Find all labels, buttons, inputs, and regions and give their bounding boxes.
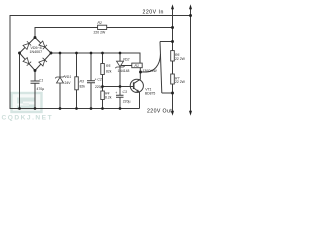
- wire: neutral rail A + left frame + bottom rail: [10, 16, 191, 109]
- svg-text:C3: C3: [123, 90, 127, 94]
- bridge rectifier diamond: [20, 38, 52, 71]
- resistor R6 box: [171, 51, 175, 61]
- svg-text:1N4148: 1N4148: [118, 69, 130, 73]
- transistor VT1 base bar: [133, 82, 135, 89]
- svg-text:BD875: BD875: [145, 91, 155, 95]
- wire: bridge bottom to C1: [34, 71, 36, 82]
- svg-text:220V Out: 220V Out: [147, 108, 172, 114]
- svg-text:R3: R3: [80, 80, 84, 84]
- zener diode VD1 symbol: [55, 76, 65, 83]
- capacitor C2 branch: [87, 53, 95, 109]
- wire: 220V In terminal 1 vertical: [172, 9, 174, 28]
- wire: 220V In/Out pass-through vertical 2: [190, 9, 192, 112]
- svg-text:470µ: 470µ: [37, 87, 45, 91]
- transistor VT1 circle: [130, 79, 143, 92]
- capacitor C3: [116, 87, 124, 109]
- svg-text:1N4007: 1N4007: [30, 50, 43, 54]
- svg-text:R5: R5: [106, 64, 110, 68]
- resistor R5 box: [101, 64, 105, 75]
- capacitor C1: [31, 81, 40, 109]
- transistor VT1 emitter: [134, 88, 140, 109]
- wire: bridge left corner to bottom rail: [19, 53, 21, 109]
- wire: bypass top corner: [160, 41, 173, 43]
- resistor R2 box: [98, 25, 107, 29]
- transistor VT1 collector: [134, 72, 141, 84]
- svg-text:8.2k: 8.2k: [105, 96, 112, 100]
- 220V In arrowhead 1: [171, 4, 174, 9]
- 220V Out arrowhead 1: [171, 111, 174, 116]
- wire: bypass bottom corner: [162, 92, 173, 94]
- bridge diode VD8: [39, 58, 47, 66]
- wire: base wire: [103, 86, 134, 88]
- svg-text:82k: 82k: [106, 70, 112, 74]
- 220V Out arrowhead 2: [189, 111, 192, 116]
- wire: R1 left lead: [120, 65, 132, 67]
- svg-text:220µ: 220µ: [95, 85, 103, 89]
- svg-text:C1: C1: [39, 79, 43, 83]
- svg-text:24V: 24V: [65, 81, 72, 85]
- svg-text:CQDKJ.NET: CQDKJ.NET: [2, 115, 54, 122]
- svg-text:R2: R2: [98, 21, 102, 25]
- svg-text:+: +: [115, 91, 117, 95]
- wire: right bypass vertical: [160, 42, 162, 94]
- emitter arrowhead: [136, 89, 139, 92]
- svg-text:22 2W: 22 2W: [175, 57, 186, 61]
- wire: collector node to right bypass: [141, 54, 161, 72]
- diode VD2 symbol: [115, 61, 124, 68]
- resistor R3 box: [75, 77, 79, 90]
- svg-text:220 2W: 220 2W: [94, 31, 106, 35]
- zener VD1 branch: [59, 53, 61, 109]
- bridge diode VD5: [23, 41, 31, 49]
- svg-text:VD1: VD1: [65, 75, 72, 79]
- svg-text:VD2: VD2: [123, 58, 130, 62]
- watermark logo: [12, 93, 42, 112]
- wire: rail B (L input to bridge top): [35, 28, 173, 38]
- svg-text:220V In: 220V In: [143, 9, 164, 15]
- svg-text:220µ: 220µ: [123, 100, 131, 104]
- svg-text:130Ω/4W: 130Ω/4W: [143, 69, 158, 73]
- resistor R4 box: [101, 91, 105, 100]
- wire: R1 right lead to collector node: [139, 68, 141, 72]
- bridge diode VD7: [23, 57, 31, 65]
- resistor R1 box: [132, 63, 142, 68]
- wire: mid rail DC+: [51, 53, 140, 63]
- resistor R5 branch: [102, 53, 104, 109]
- diode VD2 branch: [119, 53, 121, 87]
- resistor R3 branch: [76, 53, 78, 109]
- wire: 220V Out terminal 1 vertical: [172, 93, 174, 112]
- svg-text:R1: R1: [135, 64, 139, 68]
- junction dots: [18, 14, 192, 110]
- bridge diode VD6: [39, 41, 47, 49]
- svg-text:+ C2: + C2: [95, 77, 102, 81]
- 220V In arrowhead 2: [189, 4, 192, 9]
- resistor R7 box: [171, 74, 175, 84]
- svg-text:82k: 82k: [80, 85, 86, 89]
- wire: right stack column: [172, 28, 174, 94]
- svg-text:22 2W: 22 2W: [175, 80, 186, 84]
